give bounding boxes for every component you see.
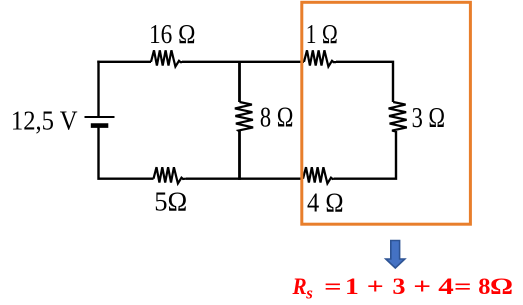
svg-text:8 Ω: 8 Ω <box>260 103 294 134</box>
resistor R5 (5 ohm) zigzag <box>154 167 187 183</box>
svg-text:Ω: Ω <box>490 274 513 299</box>
svg-text:s: s <box>305 284 313 303</box>
wire middle-bottom segment <box>238 131 241 180</box>
wire top-middle segment <box>182 61 304 63</box>
resistor R8 (8 ohm) vertical zigzag <box>235 102 253 132</box>
svg-text:+: + <box>367 274 384 299</box>
svg-text:=: = <box>454 274 472 299</box>
svg-text:3 Ω: 3 Ω <box>412 103 446 134</box>
svg-text:1 Ω: 1 Ω <box>306 19 338 49</box>
svg-text:=: = <box>324 274 342 299</box>
svg-text:5Ω: 5Ω <box>154 187 187 217</box>
wire bottom-left segment <box>97 128 153 180</box>
blue down arrow <box>386 241 405 269</box>
svg-text:4: 4 <box>438 274 454 299</box>
svg-text:3: 3 <box>392 274 405 299</box>
svg-text:+: + <box>413 274 431 299</box>
resistor R3 (3 ohm) vertical zigzag <box>389 102 407 132</box>
wire left-top segment <box>97 61 99 116</box>
battery V1 long plate (positive) <box>85 116 115 118</box>
svg-text:4 Ω: 4 Ω <box>307 188 344 218</box>
resistor R16 (16 ohm) zigzag <box>151 50 182 66</box>
svg-text:12,5 V: 12,5 V <box>11 105 78 135</box>
wire bottom-middle segment <box>186 177 303 179</box>
formula R_s = 1 + 3 + 4 = 8 ohm <box>292 274 513 303</box>
orange highlight rectangle <box>302 2 471 224</box>
battery V1 short thick plate (negative) <box>91 123 109 128</box>
resistor R1 (1 ohm) zigzag <box>304 50 336 66</box>
svg-text:8: 8 <box>478 274 490 299</box>
wire top-right segment <box>336 61 394 102</box>
resistor R4 (4 ohm) zigzag <box>303 167 334 183</box>
wire right-bottom segment <box>334 131 397 180</box>
svg-text:16 Ω: 16 Ω <box>149 19 196 49</box>
wire middle-top segment <box>238 63 241 102</box>
svg-text:1: 1 <box>345 274 359 299</box>
wire top-left segment <box>97 61 151 63</box>
svg-text:R: R <box>292 274 307 299</box>
